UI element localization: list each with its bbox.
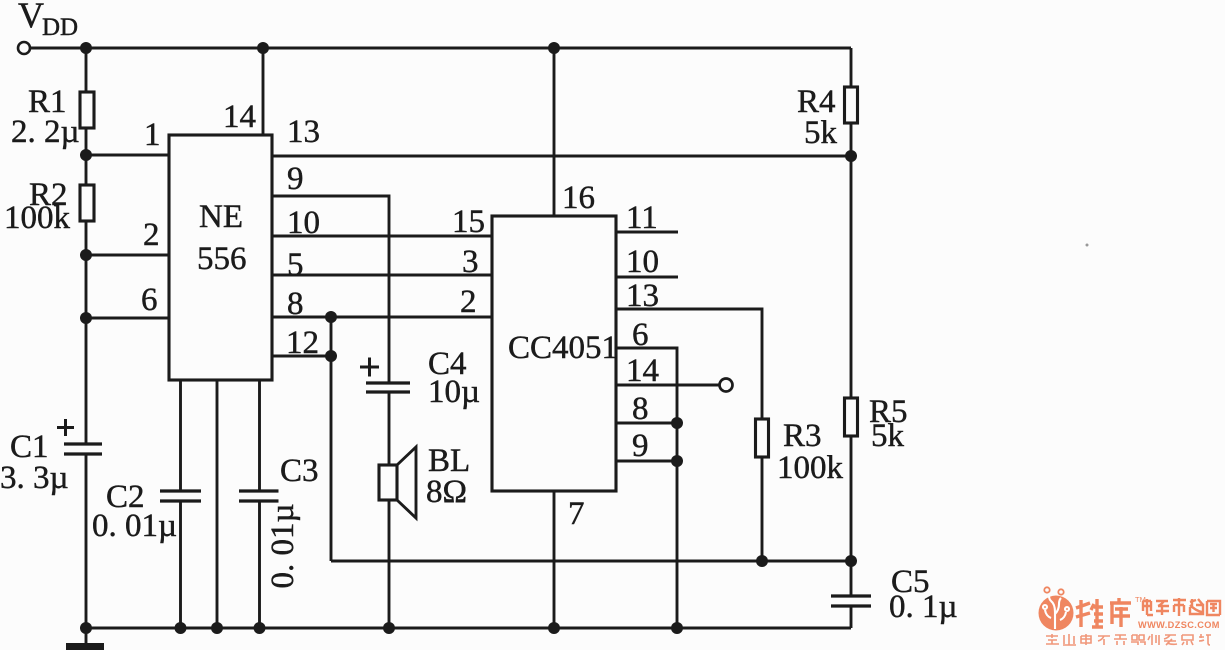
- svg-text:6: 6: [632, 317, 649, 353]
- IC U2 CC4051: [492, 216, 616, 491]
- wire pin9: [616, 460, 677, 463]
- svg-text:9: 9: [287, 161, 304, 197]
- wire pin13 to R4: [272, 155, 851, 158]
- ground: [66, 643, 104, 650]
- resistor R2: [80, 185, 94, 221]
- svg-text:100k: 100k: [4, 200, 71, 236]
- svg-text:5k: 5k: [804, 115, 838, 151]
- wire R2 down to C1: [85, 221, 88, 444]
- wire C2 to ground: [179, 501, 182, 628]
- wire ground rail: [86, 627, 851, 630]
- svg-text:0. 01µ: 0. 01µ: [265, 503, 301, 588]
- wire C5 to ground rail: [850, 606, 853, 628]
- capacitor C1: [64, 442, 102, 445]
- svg-text:14: 14: [626, 353, 659, 389]
- capacitor C3: [239, 489, 279, 492]
- wire R5 to C5: [850, 436, 853, 596]
- wire NE556 bottom pin a: [179, 380, 182, 491]
- resistor R4: [845, 87, 858, 123]
- wire NE556 bottom pin b: [216, 380, 219, 628]
- wire C1 to ground rail: [85, 454, 88, 645]
- resistor R5: [845, 398, 858, 436]
- wire speaker to ground rail: [388, 500, 391, 628]
- wire C4 to speaker: [388, 392, 391, 465]
- IC U1 NE556: [169, 135, 272, 380]
- svg-text:3. 3µ: 3. 3µ: [0, 460, 69, 496]
- capacitor C4: [366, 381, 410, 384]
- svg-text:5: 5: [287, 247, 304, 283]
- node VDD terminal: [18, 42, 30, 54]
- wire pin10 to pin15: [272, 235, 492, 238]
- svg-text:C3: C3: [280, 453, 319, 489]
- svg-text:15: 15: [452, 204, 485, 240]
- wire junction column x331: [330, 317, 333, 561]
- svg-text:0. 1µ: 0. 1µ: [889, 589, 958, 625]
- watermark slogan: [1046, 634, 1211, 645]
- wire pin5 to pin3: [272, 274, 492, 277]
- watermark text 库: [1110, 598, 1131, 627]
- svg-text:DD: DD: [42, 14, 78, 41]
- wire pin16: [553, 48, 556, 216]
- wire R1 to R2: [85, 128, 88, 185]
- svg-text:0. 01µ: 0. 01µ: [92, 508, 177, 544]
- svg-text:8: 8: [287, 286, 304, 322]
- svg-text:1: 1: [144, 117, 161, 153]
- wire R3 to y561: [761, 457, 764, 561]
- wire R4 to R5: [850, 123, 853, 398]
- node pin14 terminal: [720, 379, 733, 392]
- watermark logo: [1039, 587, 1221, 645]
- svg-text:10: 10: [626, 244, 659, 280]
- svg-text:13: 13: [287, 114, 320, 150]
- capacitor C5: [831, 594, 871, 597]
- svg-text:2: 2: [143, 217, 160, 253]
- svg-text:7: 7: [568, 496, 585, 532]
- svg-text:556: 556: [197, 241, 247, 277]
- svg-text:5k: 5k: [871, 418, 905, 454]
- svg-text:NE: NE: [199, 199, 243, 235]
- capacitor C2: [160, 489, 201, 492]
- wire bottom link y561: [331, 560, 851, 563]
- wire pin6: [86, 317, 169, 320]
- wire pin9 to C4: [272, 196, 389, 383]
- svg-text:V: V: [18, 0, 44, 35]
- wire pin14: [262, 48, 265, 135]
- svg-text:13: 13: [626, 278, 659, 314]
- svg-text:2. 2µ: 2. 2µ: [11, 114, 80, 150]
- speaker BL: [379, 465, 397, 500]
- svg-text:9: 9: [632, 428, 649, 464]
- junction dots: [80, 42, 92, 54]
- wire pin11 stub: [616, 231, 678, 234]
- resistor R1: [80, 92, 94, 128]
- svg-text:16: 16: [562, 180, 595, 216]
- wire pin10 stub: [616, 276, 678, 279]
- svg-text:6: 6: [141, 282, 158, 318]
- resistor R3: [756, 419, 769, 457]
- svg-text:TM: TM: [1135, 595, 1146, 604]
- svg-text:11: 11: [626, 200, 658, 236]
- wire pin1: [86, 154, 169, 157]
- wire left rail upper: [85, 48, 88, 92]
- wire VDD top rail: [31, 47, 852, 50]
- svg-text:R3: R3: [783, 418, 822, 454]
- watermark text 电子市场网: [1143, 598, 1220, 616]
- wire pin14 to terminal: [616, 384, 721, 387]
- svg-text:12: 12: [286, 325, 319, 361]
- wire pin2: [86, 254, 169, 257]
- svg-text:10µ: 10µ: [428, 374, 480, 410]
- svg-text:14: 14: [223, 99, 256, 135]
- wire pin6 column: [616, 348, 677, 628]
- watermark text 维: [1076, 599, 1103, 627]
- wire pin12: [272, 355, 331, 358]
- wire right column top: [850, 48, 853, 87]
- wire pin8 to pin2: [272, 316, 492, 319]
- wire C3 to ground: [258, 501, 261, 628]
- svg-text:100k: 100k: [777, 450, 844, 486]
- svg-text:10: 10: [287, 205, 320, 241]
- svg-text:2: 2: [460, 284, 477, 320]
- svg-text:3: 3: [462, 244, 479, 280]
- svg-text:8: 8: [632, 391, 649, 427]
- wire NE556 bottom pin c: [258, 380, 261, 491]
- svg-text:8Ω: 8Ω: [426, 474, 467, 510]
- wire pin7 to ground: [553, 491, 556, 628]
- wire pin13 to R3: [616, 309, 762, 419]
- speck: [1086, 244, 1089, 247]
- svg-text:WWW.DZSC.COM: WWW.DZSC.COM: [1138, 620, 1220, 630]
- svg-text:CC4051: CC4051: [508, 330, 618, 366]
- wire pin8: [616, 422, 677, 425]
